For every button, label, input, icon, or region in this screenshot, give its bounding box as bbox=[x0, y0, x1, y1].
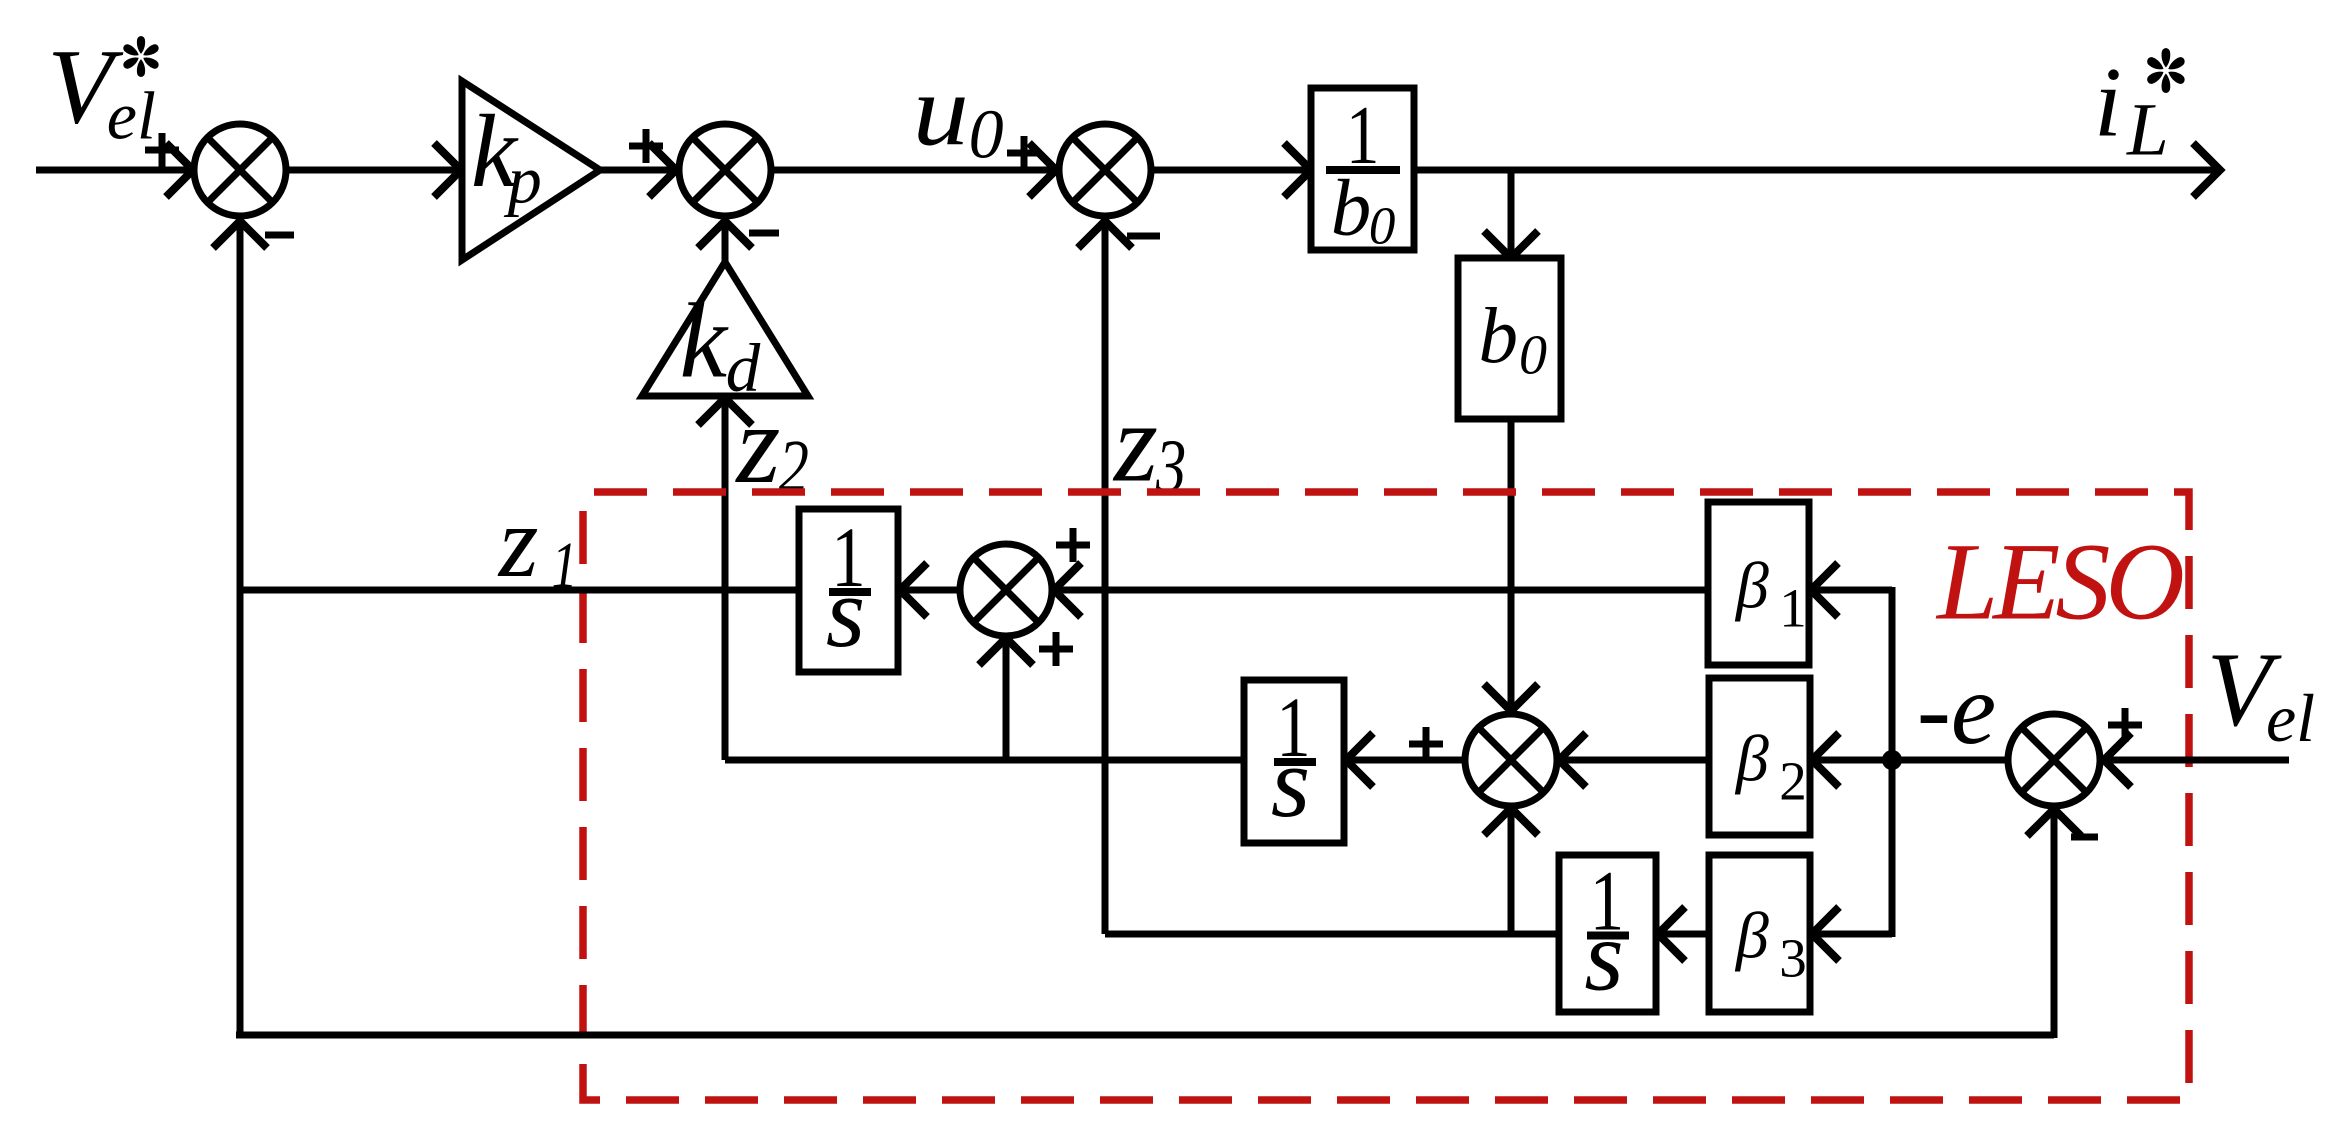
block beta2 bbox=[1709, 678, 1810, 835]
svg-text:2: 2 bbox=[779, 425, 809, 509]
arrowhead into block 1/b0 bbox=[1284, 143, 1311, 197]
wire sum SA to integrator I1 bbox=[898, 587, 958, 594]
wire sum S2 to sum S3 node u0 bbox=[774, 167, 1054, 174]
arrowhead into block beta1 bbox=[1811, 563, 1838, 617]
wire sum S1 to gain kp bbox=[289, 167, 459, 174]
svg-text:s: s bbox=[1584, 899, 1623, 1011]
wire beta2 to sum SB bbox=[1557, 757, 1709, 764]
svg-text:b: b bbox=[1479, 293, 1519, 380]
wire beta3 to integrator I3 bbox=[1656, 931, 1709, 938]
wire node riser to beta1 bbox=[1809, 587, 1892, 594]
arrowhead into sum S2 bbox=[649, 143, 676, 197]
integrator block I2 bbox=[1244, 680, 1344, 843]
block beta3 bbox=[1709, 855, 1810, 1012]
wire z1 from integrator I1 to left vertical bbox=[240, 587, 799, 594]
arrowhead into sum S1 from below bbox=[213, 221, 267, 248]
wire node riser to beta3 bbox=[1810, 931, 1892, 938]
fraction bar of I1 bbox=[829, 588, 871, 596]
arrowhead into block b0 bbox=[1484, 231, 1538, 258]
svg-text:3: 3 bbox=[1155, 425, 1186, 509]
wire beta1 output to sum SA bbox=[1052, 587, 1708, 594]
svg-text:0: 0 bbox=[969, 97, 1004, 174]
svg-text:i: i bbox=[2094, 46, 2122, 157]
integrator block I3 bbox=[1559, 855, 1656, 1012]
plus sign at sum SR right input bbox=[2108, 708, 2142, 742]
plus sign at sum S1 input bbox=[145, 133, 179, 167]
svg-text:u: u bbox=[913, 54, 969, 167]
minus sign at sum S2 lower input bbox=[749, 230, 779, 237]
svg-text:3: 3 bbox=[1779, 927, 1807, 988]
svg-text:p: p bbox=[504, 141, 542, 217]
wire block b0 to sum SB bbox=[1508, 419, 1515, 709]
arrowhead into sum SR from right bbox=[2104, 733, 2131, 787]
arrowhead into sum SB from b0 bbox=[1484, 684, 1538, 711]
svg-text:z: z bbox=[497, 486, 539, 599]
arrowhead into sum SA from below bbox=[979, 638, 1033, 665]
arrowhead into integrator I2 bbox=[1346, 733, 1373, 787]
arrowhead into sum S2 from kd bbox=[698, 221, 752, 248]
svg-text:0: 0 bbox=[1519, 325, 1547, 387]
plus sign at sum SB output side bbox=[1409, 727, 1443, 761]
arrowhead into sum SR from below bbox=[2027, 809, 2081, 836]
wire feedback bottom bbox=[236, 1032, 2054, 1039]
arrowhead into block beta3 bbox=[1812, 907, 1839, 961]
summing junction SR bbox=[2008, 714, 2100, 806]
arrowhead into gain kp bbox=[434, 143, 461, 197]
svg-text:β: β bbox=[1734, 900, 1769, 973]
summing junction SB bbox=[1465, 714, 1557, 806]
summing junction S2 bbox=[679, 124, 771, 216]
svg-text:k: k bbox=[680, 283, 730, 401]
arrowhead output iL* bbox=[2193, 143, 2220, 197]
svg-text:b: b bbox=[1331, 163, 1372, 253]
wire z1 feedback vertical left bbox=[237, 223, 244, 1038]
block 1/b0 bbox=[1311, 88, 1414, 250]
junction dot at node -e bbox=[1882, 750, 1902, 770]
svg-text:0: 0 bbox=[1369, 197, 1396, 255]
svg-text:LESO: LESO bbox=[1935, 520, 2182, 642]
block b0 bbox=[1458, 258, 1561, 419]
fraction bar of I3 bbox=[1587, 932, 1629, 940]
fraction bar of I2 bbox=[1274, 758, 1316, 766]
label * of V*el bbox=[122, 36, 160, 77]
minus sign at sum S3 lower input bbox=[1127, 233, 1160, 240]
wire -e from sum SR to beta2 bbox=[1810, 757, 2006, 764]
wire z2 line from integrator I2 bbox=[725, 757, 1244, 764]
arrowhead into integrator I3 bbox=[1658, 907, 1685, 961]
arrowhead into block beta2 bbox=[1812, 733, 1839, 787]
svg-text:L: L bbox=[2126, 88, 2169, 171]
minus sign at sum S1 lower input bbox=[265, 232, 294, 239]
arrowhead into sum SA from right bbox=[1054, 563, 1081, 617]
wire gain kp to sum S2 bbox=[600, 167, 674, 174]
fraction bar of 1/b0 bbox=[1326, 166, 1400, 174]
svg-text:s: s bbox=[1271, 726, 1310, 838]
wire z2 branch up to sum SA bbox=[1003, 640, 1010, 760]
svg-text:1: 1 bbox=[1779, 577, 1807, 638]
wire z3 line from integrator I3 bbox=[1105, 931, 1558, 938]
wire z2 riser bbox=[722, 396, 729, 760]
svg-text:el: el bbox=[2266, 680, 2315, 756]
plus sign at sum S3 input bbox=[1007, 136, 1041, 170]
wire z3 branch up to sum SB bbox=[1508, 810, 1515, 934]
arrowhead into integrator I1 bbox=[900, 563, 927, 617]
arrowhead into gain kd from z2 bbox=[698, 398, 752, 425]
svg-text:β: β bbox=[1734, 550, 1769, 623]
arrowhead into sum S3 bbox=[1029, 143, 1056, 197]
svg-text:-e: -e bbox=[1917, 653, 1996, 766]
wire sum S3 to block 1/b0 bbox=[1154, 167, 1309, 174]
plus sign at sum SA bottom input bbox=[1039, 632, 1073, 666]
wire sum SB to integrator I2 bbox=[1344, 757, 1463, 764]
plus sign at sum SA right input bbox=[1056, 528, 1090, 562]
LESO dashed boundary bbox=[583, 492, 2189, 1100]
wire Vel input bbox=[2102, 757, 2289, 764]
svg-text:2: 2 bbox=[1779, 750, 1807, 811]
arrowhead into sum S1 bbox=[166, 143, 193, 197]
svg-text:1: 1 bbox=[552, 528, 578, 602]
svg-text:z: z bbox=[1112, 381, 1158, 506]
gain kp triangle bbox=[462, 81, 600, 260]
summing junction SA bbox=[960, 544, 1052, 636]
minus sign at sum SR lower input bbox=[2071, 834, 2098, 841]
svg-text:β: β bbox=[1734, 723, 1769, 796]
plus sign at sum S2 input bbox=[629, 129, 663, 163]
summing junction S1 bbox=[194, 124, 286, 216]
summing junction S3 bbox=[1059, 124, 1151, 216]
arrowhead into sum SB from below bbox=[1484, 808, 1538, 835]
wire block 1/b0 to output iL* bbox=[1414, 167, 2218, 174]
wire input V*el to sum S1 bbox=[36, 167, 192, 174]
wire z3 riser bbox=[1102, 223, 1109, 934]
wire branch down to block b0 bbox=[1508, 167, 1515, 256]
wire node riser vertical bbox=[1889, 587, 1896, 937]
block beta1 bbox=[1708, 502, 1809, 665]
wire kd output to sum S2 bbox=[722, 223, 729, 262]
arrowhead into sum SB from right bbox=[1559, 733, 1586, 787]
svg-text:s: s bbox=[826, 556, 865, 668]
label * of iL* bbox=[2146, 48, 2187, 93]
integrator block I1 bbox=[799, 509, 898, 672]
arrowhead into sum S3 from z3 bbox=[1078, 221, 1132, 248]
svg-text:el: el bbox=[107, 77, 156, 153]
wire riser to sum SR from below bbox=[2051, 811, 2058, 1038]
gain kd triangle bbox=[642, 262, 808, 396]
